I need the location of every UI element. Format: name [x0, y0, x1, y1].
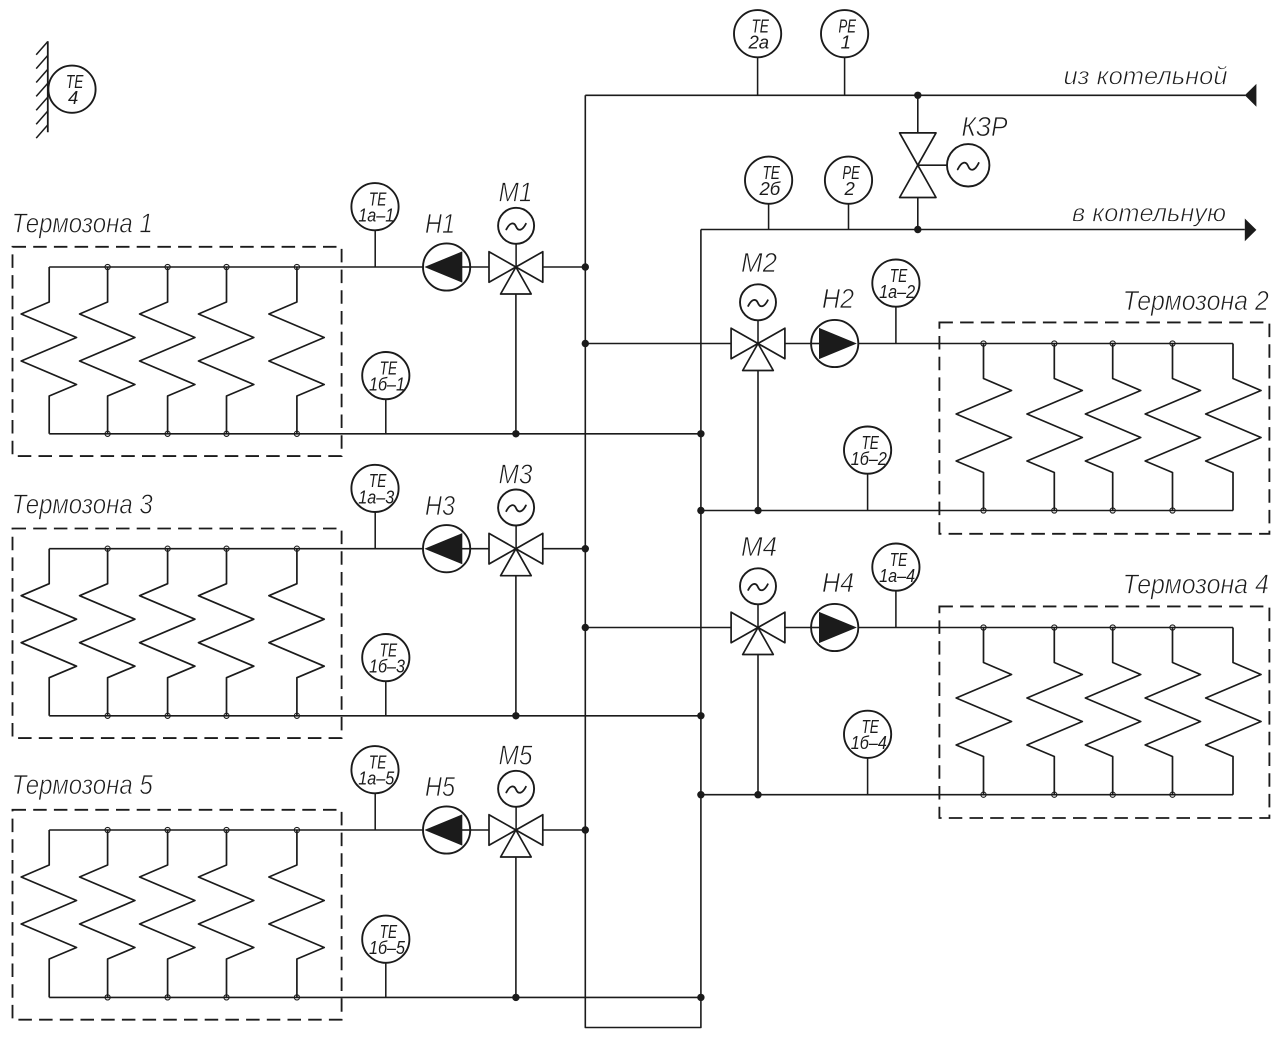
pipe: КЗР bypass branch lower segment [917, 198, 919, 230]
zone boundary Термозона 4 (dashed) [939, 606, 1269, 818]
junction М5 bypass / zone return [512, 994, 519, 1001]
sensor ТЕ 1а-3 (zone 3 supply temperature) [351, 465, 398, 549]
3-way valve М1 [489, 252, 543, 294]
radiator 3.3 [140, 549, 195, 716]
svg-text:в котельную: в котельную [1072, 199, 1226, 227]
radiator 5.1 [21, 830, 76, 997]
junction zone 4 supply / riser [582, 624, 589, 631]
radiator 4.1 [956, 628, 1011, 795]
radiator 2.1 [956, 344, 1011, 511]
pipe: М1 bypass to return [515, 294, 517, 434]
radiator 3.1 [21, 549, 76, 716]
sensor РЕ2 (return header pressure) [825, 157, 872, 230]
radiator 2.2 [1027, 344, 1082, 511]
svg-text:1а–1: 1а–1 [358, 205, 394, 226]
zone boundary Термозона 2 (dashed) [939, 322, 1269, 533]
pipe: zone 2 supply pipe [585, 343, 731, 345]
pump Н3 [423, 525, 471, 572]
flow arrow on return header [1245, 219, 1257, 242]
sensor ТЕ 1а-5 (zone 5 supply temperature) [351, 746, 398, 830]
junction М3 bypass / zone return [512, 712, 519, 719]
3-way valve М2 [731, 328, 785, 370]
wall support symbol [36, 41, 48, 138]
junction zone 3 return / return riser [697, 712, 704, 719]
3-way valve М5 [489, 815, 543, 857]
sensor ТЕ 1б-1 (zone 1 return temperature) [362, 352, 409, 434]
zone boundary Термозона 3 (dashed) [13, 529, 342, 739]
pipe: М4 bypass to return [757, 655, 759, 795]
pipe: М3 bypass to return [515, 576, 517, 716]
sensor ТЕ 1а-1 (zone 1 supply temperature) [351, 183, 398, 267]
pipe: КЗР bypass branch upper segment [917, 95, 919, 133]
sensor ТЕ 1б-2 (zone 2 return temperature) [844, 427, 891, 511]
radiator 5.5 [269, 830, 324, 997]
svg-text:М3: М3 [499, 458, 533, 489]
pump Н4 [810, 604, 858, 651]
pump Н5 [423, 806, 471, 853]
3-way valve М4 [731, 612, 785, 654]
radiator 5.2 [80, 830, 135, 997]
sensor ТЕ 1б-3 (zone 3 return temperature) [362, 634, 409, 716]
pipe: zone 5 supply pipe [49, 829, 489, 831]
svg-text:Термозона 4: Термозона 4 [1123, 569, 1269, 600]
radiator 4.5 [1206, 628, 1261, 795]
junction М4 bypass / zone return [754, 791, 761, 798]
svg-text:1а–2: 1а–2 [879, 281, 916, 302]
sensor ТЕ2а (supply header temperature) [734, 10, 781, 95]
actuator of М4 [740, 568, 776, 627]
sensor ТЕ 1а-2 (zone 2 supply temperature) [872, 260, 919, 344]
junction zone 2 supply / riser [582, 340, 589, 347]
radiator connection nodes zone 5 [105, 827, 300, 1000]
pipe: zone 2 return pipe [701, 510, 1233, 512]
sensor ТЕ 1б-4 (zone 4 return temperature) [844, 711, 891, 795]
radiator 1.2 [80, 267, 135, 434]
svg-text:Н2: Н2 [822, 283, 854, 314]
radiator connection nodes zone 3 [105, 546, 300, 718]
pipe: zone 4 return pipe [701, 794, 1233, 796]
svg-text:1а–4: 1а–4 [879, 565, 915, 586]
pipe: return riser [700, 230, 702, 998]
radiator connection nodes zone 4 [981, 625, 1175, 797]
radiator connection nodes zone 2 [981, 341, 1175, 513]
svg-text:Н1: Н1 [425, 208, 455, 239]
svg-text:Н5: Н5 [425, 771, 455, 802]
sensor ТЕ 1б-5 (zone 5 return temperature) [362, 916, 409, 998]
valve КЗР (2-way control valve) [900, 133, 936, 198]
sensor ТЕ2б (return header temperature) [745, 157, 792, 230]
pipe: zone 3 return pipe [49, 715, 701, 717]
radiator 2.4 [1145, 344, 1200, 511]
pipe: zone 3 supply pipe [49, 548, 489, 550]
junction zone 2 return / return riser [697, 507, 704, 514]
3-way valve М3 [489, 533, 543, 575]
flow arrow on supply header [1245, 84, 1257, 107]
svg-text:М2: М2 [741, 247, 777, 278]
svg-text:1: 1 [841, 32, 851, 53]
radiator 1.4 [199, 267, 254, 434]
junction М2 bypass / zone return [754, 507, 761, 514]
zone boundary Термозона 5 (dashed) [13, 810, 342, 1020]
sensor ТЕ 1а-4 (zone 4 supply temperature) [872, 544, 919, 628]
svg-text:1а–3: 1а–3 [358, 486, 395, 507]
svg-text:2а: 2а [748, 32, 770, 53]
pump Н2 [810, 320, 858, 367]
sensor ТЕ4 (wall-mounted temperature sensor) [48, 66, 95, 113]
svg-text:2: 2 [844, 178, 856, 199]
pipe: М2 bypass to return [757, 371, 759, 511]
junction zone 1 return / return riser [697, 430, 704, 437]
radiator 3.4 [199, 549, 254, 716]
radiator 1.3 [140, 267, 195, 434]
radiator 1.5 [269, 267, 324, 434]
svg-text:1б–4: 1б–4 [851, 732, 887, 753]
svg-text:М5: М5 [499, 740, 533, 771]
junction zone 5 return / return riser [697, 994, 704, 1001]
radiator 1.1 [21, 267, 76, 434]
pipe: return header to boiler [701, 229, 1245, 231]
svg-text:4: 4 [68, 87, 78, 108]
svg-text:Н4: Н4 [822, 567, 854, 598]
svg-text:1б–1: 1б–1 [369, 374, 405, 395]
zone boundary Термозона 1 (dashed) [13, 247, 342, 456]
svg-text:Н3: Н3 [425, 490, 455, 521]
svg-text:1б–3: 1б–3 [369, 656, 406, 677]
junction zone 3 supply / riser [582, 545, 589, 552]
svg-text:Термозона 3: Термозона 3 [12, 488, 153, 519]
sensor РЕ1 (supply header pressure) [821, 10, 868, 95]
junction zone 4 return / return riser [697, 791, 704, 798]
svg-text:1б–5: 1б–5 [369, 937, 406, 958]
pipe: zone 4 supply pipe [585, 627, 731, 629]
radiator 2.5 [1206, 344, 1261, 511]
actuator of М5 [498, 771, 534, 830]
pipe: zone 5 return pipe [49, 996, 701, 998]
pipe: zone 1 supply pipe [49, 266, 489, 268]
svg-text:М4: М4 [741, 531, 777, 562]
actuator of М1 [498, 208, 534, 267]
radiator 4.3 [1085, 628, 1140, 795]
radiator 5.4 [199, 830, 254, 997]
svg-text:1а–5: 1а–5 [358, 768, 395, 789]
svg-text:Термозона 2: Термозона 2 [1123, 285, 1269, 316]
actuator of КЗР [918, 144, 990, 186]
actuator of М3 [498, 490, 534, 549]
radiator 4.2 [1027, 628, 1082, 795]
pipe: М5 bypass to return [515, 857, 517, 997]
radiator 2.3 [1085, 344, 1140, 511]
junction zone 1 supply / riser [582, 263, 589, 270]
pump Н1 [423, 243, 471, 290]
junction on return header [914, 226, 921, 233]
radiator 4.4 [1145, 628, 1200, 795]
svg-text:Термозона 1: Термозона 1 [12, 208, 153, 239]
junction on supply header [914, 92, 921, 99]
radiator 3.2 [80, 549, 135, 716]
junction zone 5 supply / riser [582, 826, 589, 833]
junction М1 bypass / zone return [512, 430, 519, 437]
svg-text:1б–2: 1б–2 [851, 448, 888, 469]
radiator 3.5 [269, 549, 324, 716]
svg-text:Термозона 5: Термозона 5 [12, 769, 153, 800]
radiator 5.3 [140, 830, 195, 997]
actuator of М2 [740, 284, 776, 343]
pipe: zone 1 return pipe [49, 433, 701, 435]
svg-text:из котельной: из котельной [1064, 62, 1228, 90]
svg-text:М1: М1 [499, 177, 533, 208]
pipe: supply header from boiler [585, 94, 1245, 96]
pipe: supply riser [585, 95, 701, 1027]
svg-text:КЗР: КЗР [962, 111, 1008, 142]
radiator connection nodes zone 1 [105, 264, 300, 436]
svg-text:2б: 2б [758, 178, 780, 199]
